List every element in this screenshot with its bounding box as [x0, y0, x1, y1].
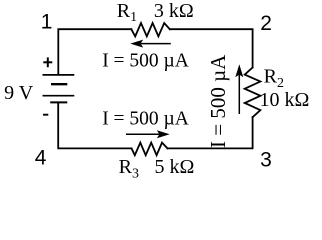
resistor R3: [132, 143, 168, 156]
battery + terminal sign: [43, 57, 52, 67]
svg-text:4: 4: [35, 147, 47, 170]
battery - terminal sign: [43, 114, 48, 116]
battery plate long lower: [43, 95, 75, 97]
wire bottom-left (R3 to node 4 to battery): [58, 102, 131, 148]
battery plate short bottom: [50, 101, 67, 103]
svg-text:3 kΩ: 3 kΩ: [154, 0, 194, 22]
svg-text:I = 500 µA: I = 500 µA: [206, 54, 230, 148]
wire top-left (node 1 to R1): [58, 29, 131, 74]
battery plate short upper: [51, 83, 67, 85]
current arrow left (top, under R1): [130, 40, 171, 48]
battery plate long top: [43, 74, 75, 76]
wire right-bottom (R2 to node 3): [168, 117, 253, 148]
current arrow right (bottom, above R3): [126, 130, 170, 138]
current arrow up (beside R2): [235, 64, 243, 114]
battery B1 9V: [43, 75, 75, 103]
resistor R2: [245, 68, 261, 118]
resistor R1: [131, 23, 170, 36]
svg-text:1: 1: [41, 11, 53, 34]
svg-text:3: 3: [260, 148, 272, 171]
svg-text:I = 500 µA: I = 500 µA: [102, 51, 189, 72]
svg-text:2: 2: [260, 12, 272, 35]
svg-text:9 V: 9 V: [4, 82, 34, 104]
wire top-right (R1 to node 2): [170, 29, 253, 67]
svg-text:10 kΩ: 10 kΩ: [260, 89, 310, 111]
svg-text:5 kΩ: 5 kΩ: [155, 156, 195, 178]
svg-text:I = 500 µA: I = 500 µA: [102, 109, 189, 130]
